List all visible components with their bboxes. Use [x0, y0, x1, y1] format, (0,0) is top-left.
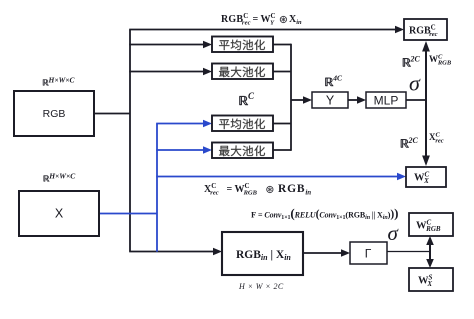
block Gamma	[350, 242, 387, 264]
label R^4C	[325, 74, 343, 87]
wire: arrow to max-pool 1	[129, 71, 204, 73]
svg-text:WCRGB: WCRGB	[429, 54, 452, 67]
block Y	[312, 92, 348, 108]
wire: X box output to blue bus	[99, 213, 157, 215]
formula F = Conv1x1(RELU(Conv1x1(RGB_in || X_in)))	[251, 206, 398, 222]
svg-text:WCX: WCX	[414, 171, 430, 185]
wire: vertical double arrow RGB_rec / W_X	[425, 49, 427, 158]
block W_RGB^C	[409, 213, 453, 236]
wire: blue bus x=157	[156, 124, 158, 252]
formula top: RGB_rec^C = W_Y^C conv X_in	[221, 12, 302, 26]
svg-text:H × W × 2C: H × W × 2C	[238, 282, 284, 291]
svg-text:MLP: MLP	[374, 94, 399, 108]
svg-text:C: C	[248, 91, 255, 101]
block MLP	[366, 92, 406, 108]
block max-pool 2	[212, 143, 273, 159]
block avg-pool 1	[212, 37, 273, 53]
svg-text:F = Conv1×1(RELU(Conv1×1(RGBin: F = Conv1×1(RELU(Conv1×1(RGBin || Xin)))	[251, 206, 398, 222]
svg-text:RGBin: RGBin	[278, 183, 311, 196]
wire: vertical double arrow W_RGB / W_X^S	[429, 244, 431, 260]
svg-text:H×W×C: H×W×C	[48, 172, 76, 181]
block avg-pool 2	[212, 116, 273, 132]
wire: arrow to avg-pool 1	[129, 44, 204, 46]
svg-text:= WCRGB: = WCRGB	[227, 182, 258, 196]
block concat RGB_in | X_in	[222, 232, 303, 275]
wire: concat box to Gamma	[303, 252, 342, 254]
wire: pool outputs collector	[273, 45, 291, 151]
svg-text:2C: 2C	[410, 55, 421, 64]
svg-text:Γ: Γ	[365, 247, 372, 261]
block W_X^C	[406, 167, 446, 187]
block X input	[19, 191, 99, 236]
wire: top line to RGB_rec box	[129, 29, 396, 31]
wire: collector to Y	[291, 99, 304, 101]
label R^HxWxC (RGB)	[43, 76, 76, 86]
formula blue line: X_rec^C = W_RGB^C conv RGB_in	[204, 182, 311, 196]
wire: blue arrow to max-pool 2	[156, 149, 204, 151]
svg-text:Xin: Xin	[289, 14, 302, 26]
label R^2C lower	[401, 136, 419, 148]
wire: gamma output	[387, 251, 430, 253]
wire: blue arrow to avg-pool 2	[156, 123, 204, 125]
svg-text:H×W×C: H×W×C	[48, 76, 76, 85]
svg-text:RGBCrec: RGBCrec	[221, 12, 251, 26]
block RGB input	[14, 91, 94, 136]
svg-text:σ: σ	[409, 71, 421, 96]
svg-text:σ: σ	[388, 221, 400, 245]
wire: bottom line to concat box	[129, 251, 214, 253]
label R^HxWxC (X)	[44, 172, 77, 182]
wire: Y to MLP	[348, 99, 358, 101]
wire: MLP to sigma junction	[406, 99, 426, 101]
wire: blue line to W_X box	[156, 176, 398, 178]
svg-text:Y: Y	[326, 94, 335, 108]
svg-text:WSX: WSX	[418, 274, 433, 288]
wire: main black bus x=130	[129, 30, 131, 252]
svg-text:2C: 2C	[408, 136, 419, 145]
wire: RGB box output to bus	[94, 113, 130, 115]
svg-text:RGBCrec: RGBCrec	[409, 24, 438, 38]
svg-text:XCrec: XCrec	[429, 132, 444, 145]
svg-text:= WCY: = WCY	[253, 12, 276, 26]
svg-text:4C: 4C	[332, 74, 343, 83]
svg-text:X: X	[55, 207, 64, 221]
svg-text:XCrec: XCrec	[204, 182, 219, 196]
label R^2C upper	[403, 55, 421, 67]
block RGB_rec output	[404, 19, 447, 40]
block max-pool 1	[212, 64, 273, 80]
block W_X^S	[409, 268, 453, 291]
label R^C	[239, 91, 255, 105]
svg-text:RGB: RGB	[43, 108, 66, 120]
